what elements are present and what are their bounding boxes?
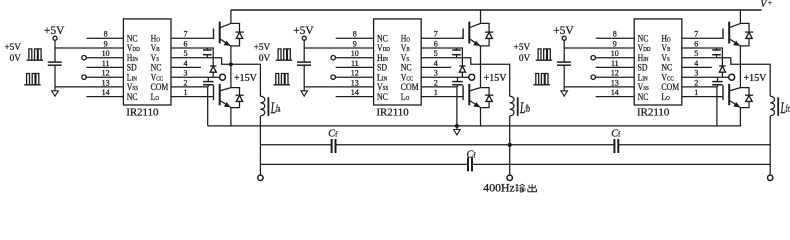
- bootstrap capacitor VB-VS (leg 2): [456, 48, 458, 50]
- svg-text:5: 5: [694, 49, 698, 58]
- capacitor Cf (A-B): [331, 139, 333, 153]
- transistor V2H collector lead to V+ rail: [469, 10, 480, 28]
- NC stub pin 14 (leg 1): [87, 96, 124, 98]
- +5V supply terminal (leg 3): [562, 36, 566, 40]
- inductor Lfa coil (leg 1): [260, 96, 264, 116]
- wire: pin 2 COM to ground bus (leg 2): [421, 87, 457, 126]
- SD stub pin 11 (leg 2): [336, 66, 374, 68]
- wire: pin 1 LO to lower gate (leg 1): [171, 96, 214, 98]
- capacitor Cf (B-C): [613, 139, 615, 153]
- transistor V3H collector lead to V+ rail: [729, 10, 740, 28]
- SD stub pin 11 (leg 1): [87, 66, 124, 68]
- svg-text:9: 9: [353, 39, 357, 48]
- NC stub pin 4 (leg 1): [171, 66, 201, 68]
- V+ positive DC rail: [231, 9, 762, 11]
- op-amp/driver IC U2 IR2110 body: [374, 19, 422, 105]
- SD stub pin 11 (leg 3): [596, 66, 635, 68]
- svg-text:7: 7: [434, 30, 438, 39]
- svg-text:0V: 0V: [10, 53, 22, 63]
- wire: pin 7 HO to upper gate (leg 1): [171, 37, 214, 39]
- svg-text:+15V: +15V: [484, 73, 508, 84]
- NC stub pin 4 (leg 3): [682, 66, 712, 68]
- svg-text:0V: 0V: [259, 53, 271, 63]
- wire: lower emitter to ground bus (leg 3): [739, 107, 741, 126]
- decoupling capacitor VCC-COM (leg 1): [207, 77, 209, 81]
- svg-text:6: 6: [434, 39, 438, 48]
- wire: inductor to output terminal (leg 2): [509, 116, 511, 175]
- LIN input terminal (leg 2): [331, 75, 335, 79]
- wire: pin 6 VB with corner down to bootstrap diode (leg 3): [682, 48, 723, 66]
- wire: pin 2 COM to ground bus (leg 3): [682, 87, 717, 126]
- wire: pin 3 VCC to +15V terminal (leg 3): [682, 76, 729, 78]
- wire: pin 7 HO to upper gate (leg 3): [682, 37, 723, 39]
- wire: +5V vertical to decoupling cap (leg 3): [563, 40, 565, 62]
- junction: phase B on Cf bus: [508, 143, 512, 147]
- bootstrap capacitor VB-VS (leg 3): [716, 48, 718, 50]
- svg-text:6: 6: [694, 39, 698, 48]
- svg-text:NC: NC: [638, 91, 649, 102]
- NC stub pin 4 (leg 2): [421, 66, 451, 68]
- wire: branch to pin 13 VSS (leg 1): [55, 86, 123, 88]
- HIN pulse waveform symbol (leg 2): [276, 49, 293, 60]
- output terminal phase 1: [258, 175, 263, 180]
- svg-text:+5V: +5V: [254, 42, 271, 52]
- transistor V2H upper IGBT gate bar (leg 2): [462, 29, 464, 40]
- LIN pulse waveform symbol (leg 3): [533, 74, 550, 85]
- svg-text:9: 9: [104, 39, 108, 48]
- svg-text:+5V: +5V: [514, 42, 531, 52]
- svg-text:IR2110: IR2110: [126, 106, 159, 118]
- wire: pin 3 VCC to +15V terminal (leg 2): [421, 76, 469, 78]
- transistor V3H emitter lead with arrow: [729, 39, 740, 46]
- ground symbol (leg 2 input): [301, 91, 308, 96]
- wire: HIN terminal to pin 10 (leg 1): [86, 57, 123, 59]
- svg-text:10: 10: [102, 49, 110, 58]
- svg-text:Lfc: Lfc: [780, 98, 790, 116]
- svg-text:5: 5: [434, 49, 438, 58]
- A-C capacitor rail: [260, 163, 468, 165]
- +5V supply terminal (leg 1): [53, 36, 57, 40]
- wire: HIN terminal to pin 10 (leg 2): [336, 57, 374, 59]
- +15V terminal (leg 3): [729, 74, 735, 80]
- svg-text:2: 2: [184, 78, 188, 87]
- HIN input terminal (leg 2): [331, 56, 335, 60]
- inductor Lfb core bar: [517, 97, 519, 116]
- svg-text:+15V: +15V: [744, 73, 768, 84]
- decoupling capacitor VCC-COM (leg 2): [457, 77, 459, 81]
- LIN input terminal (leg 3): [591, 75, 595, 79]
- svg-text:4: 4: [184, 59, 188, 68]
- svg-text:3: 3: [694, 69, 698, 78]
- decoupling capacitor VCC-COM (leg 3): [717, 77, 719, 81]
- svg-text:+5V: +5V: [4, 42, 21, 52]
- wire: phase node to filter inductor (leg 2): [481, 64, 510, 96]
- svg-text:8: 8: [104, 30, 108, 39]
- wire: pin 6 VB with corner down to bootstrap diode (leg 2): [421, 48, 462, 66]
- transistor V1L lower IGBT gate bar (leg 1): [213, 86, 215, 101]
- wire: +5V branch to pin 9 VDD (leg 3): [564, 47, 634, 49]
- freewheeling diode VD3L (leg 3): [740, 88, 749, 95]
- wire: branch to pin 13 VSS (leg 3): [564, 86, 634, 88]
- svg-text:4: 4: [694, 59, 698, 68]
- svg-text:7: 7: [694, 30, 698, 39]
- svg-text:12: 12: [102, 69, 110, 78]
- output terminal phase 2: [507, 175, 512, 180]
- svg-text:Cf: Cf: [467, 150, 477, 161]
- svg-text:12: 12: [611, 69, 619, 78]
- junction: VS / phase node (leg 1): [229, 62, 233, 66]
- wire: pin 6 VB with corner down to bootstrap diode (leg 1): [171, 48, 213, 66]
- HIN pulse waveform symbol (leg 1): [27, 49, 44, 60]
- wire: phase node to filter inductor (leg 3): [740, 64, 770, 96]
- svg-text:8: 8: [353, 30, 357, 39]
- +15V terminal (leg 1): [220, 74, 226, 80]
- svg-text:Cf: Cf: [611, 129, 621, 140]
- svg-text:1: 1: [434, 88, 438, 97]
- phase-B capacitor rail (Cf bus): [260, 144, 331, 146]
- capacitor: +5V input decoupling (leg 1): [48, 61, 62, 63]
- NC stub pin 14 (leg 2): [336, 96, 374, 98]
- transistor V1H emitter lead with arrow: [220, 39, 231, 46]
- svg-text:NC: NC: [377, 91, 388, 102]
- wire: +5V vertical to decoupling cap (leg 1): [54, 40, 56, 62]
- svg-text:14: 14: [611, 88, 619, 97]
- svg-text:IR2110: IR2110: [376, 106, 409, 118]
- svg-text:11: 11: [102, 59, 110, 68]
- wire: phase node vertical (leg 3): [739, 46, 741, 88]
- wire: +5V branch to pin 9 VDD (leg 2): [304, 47, 373, 49]
- transistor V1H collector lead to V+ rail: [220, 10, 231, 28]
- svg-text:14: 14: [102, 88, 110, 97]
- wire: LIN terminal to pin 12 (leg 2): [336, 76, 374, 78]
- transistor V1H upper IGBT body bar: [219, 22, 221, 44]
- svg-text:Lfb: Lfb: [519, 98, 530, 116]
- ground symbol (leg 3 input): [561, 91, 568, 96]
- svg-text:13: 13: [611, 78, 619, 87]
- bootstrap diode VB (leg 3): [719, 65, 725, 67]
- wire: pin 3 VCC to +15V terminal (leg 1): [171, 76, 220, 78]
- COM / power ground bus: [208, 125, 742, 127]
- NC stub pin 8 (leg 1): [87, 37, 124, 39]
- svg-text:9: 9: [613, 39, 617, 48]
- freewheeling diode VD2L (leg 2): [481, 88, 490, 95]
- wire: pin 5 VS step to phase node (leg 3): [682, 58, 741, 64]
- NC stub pin 8 (leg 3): [596, 37, 635, 39]
- wire: +5V branch to pin 9 VDD (leg 1): [55, 47, 123, 49]
- svg-text:2: 2: [694, 78, 698, 87]
- svg-text:11: 11: [611, 59, 619, 68]
- svg-text:Cf: Cf: [328, 129, 338, 140]
- ground symbol (power bus): [456, 126, 458, 130]
- capacitor: +5V input decoupling (leg 3): [557, 61, 571, 63]
- transistor V3L emitter lead with arrow: [729, 101, 740, 108]
- wire: pin 5 VS step to phase node (leg 2): [421, 58, 480, 64]
- svg-text:8: 8: [613, 30, 617, 39]
- wire: phase node to filter inductor (leg 1): [231, 64, 261, 96]
- transistor V2H emitter lead with arrow: [469, 39, 480, 46]
- transistor V2L collector lead: [470, 88, 481, 91]
- wire: phase node vertical (leg 2): [480, 46, 482, 88]
- transistor V2L lower IGBT body bar: [468, 84, 470, 105]
- wire: pin 1 LO to lower gate (leg 3): [682, 96, 723, 98]
- transistor V2H upper IGBT body bar: [468, 22, 470, 44]
- NC stub pin 14 (leg 3): [596, 96, 635, 98]
- LIN pulse waveform symbol (leg 1): [24, 74, 41, 85]
- wire: cap to ground (leg 2): [303, 66, 305, 91]
- freewheeling diode VD2H (leg 2): [481, 23, 490, 31]
- svg-text:+5V: +5V: [553, 25, 574, 37]
- NC stub pin 8 (leg 2): [336, 37, 374, 39]
- transistor V1L collector lead: [220, 88, 231, 91]
- inductor Lfc coil (leg 3): [770, 96, 774, 116]
- wire: pin 1 LO to lower gate (leg 2): [421, 96, 463, 98]
- transistor V1L emitter lead with arrow: [220, 101, 231, 108]
- wire: inductor to output terminal (leg 1): [259, 116, 261, 175]
- transistor V3L lower IGBT gate bar (leg 3): [722, 86, 724, 101]
- op-amp/driver IC U3 IR2110 body: [634, 19, 682, 105]
- wire: HIN terminal to pin 10 (leg 3): [596, 57, 635, 59]
- label glyph 输: [515, 184, 519, 192]
- junction: ground bus at leg 2 COM: [455, 124, 459, 128]
- svg-text:4: 4: [434, 59, 438, 68]
- svg-text:13: 13: [351, 78, 359, 87]
- wire: cap to ground (leg 3): [563, 66, 565, 91]
- transistor V1L lower IGBT body bar: [219, 84, 221, 105]
- svg-text:V: V: [761, 0, 768, 10]
- output terminal phase 3: [768, 175, 773, 180]
- svg-text:3: 3: [184, 69, 188, 78]
- svg-text:+5V: +5V: [293, 25, 314, 37]
- svg-text:7: 7: [184, 30, 188, 39]
- svg-text:1: 1: [184, 88, 188, 97]
- capacitor Cf (A-C): [467, 157, 469, 171]
- bootstrap diode VB (leg 1): [210, 65, 216, 67]
- svg-text:Lfa: Lfa: [270, 98, 281, 116]
- wire: cap to ground (leg 1): [54, 66, 56, 91]
- wire: LIN terminal to pin 12 (leg 1): [86, 76, 123, 78]
- LIN pulse waveform symbol (leg 2): [273, 74, 290, 85]
- capacitor: +5V input decoupling (leg 2): [297, 61, 311, 63]
- bootstrap capacitor VB-VS (leg 1): [206, 48, 208, 50]
- op-amp/driver IC U1 IR2110 body: [123, 19, 171, 105]
- transistor V1H upper IGBT gate bar (leg 1): [213, 29, 215, 40]
- svg-text:400Hz: 400Hz: [483, 181, 514, 194]
- svg-text:2: 2: [434, 78, 438, 87]
- inductor Lfc core bar: [777, 97, 779, 116]
- freewheeling diode VD3H (leg 3): [740, 23, 749, 31]
- transistor V2L lower IGBT gate bar (leg 2): [462, 86, 464, 101]
- svg-text:+15V: +15V: [234, 73, 258, 84]
- transistor V3L lower IGBT body bar: [728, 84, 730, 105]
- ground symbol (leg 1 input): [52, 91, 59, 96]
- svg-text:10: 10: [611, 49, 619, 58]
- wire: pin 7 HO to upper gate (leg 2): [421, 37, 463, 39]
- HIN input terminal (leg 3): [591, 56, 595, 60]
- HIN input terminal (leg 1): [82, 56, 86, 60]
- svg-text:1: 1: [694, 88, 698, 97]
- transistor V3L collector lead: [729, 88, 740, 91]
- freewheeling diode VD1H (leg 1): [231, 23, 240, 31]
- svg-text:6: 6: [184, 39, 188, 48]
- wire: LIN terminal to pin 12 (leg 3): [596, 76, 635, 78]
- wire: pin 2 COM to ground bus (leg 1): [171, 87, 208, 126]
- bootstrap diode VB (leg 2): [459, 65, 465, 67]
- svg-text:12: 12: [351, 69, 359, 78]
- transistor V3H upper IGBT body bar: [728, 22, 730, 44]
- LIN input terminal (leg 1): [82, 75, 86, 79]
- label glyph 出: [528, 184, 537, 192]
- svg-text:10: 10: [351, 49, 359, 58]
- svg-text:+5V: +5V: [44, 25, 65, 37]
- transistor V3H upper IGBT gate bar (leg 3): [722, 29, 724, 40]
- wire: branch to pin 13 VSS (leg 2): [304, 86, 373, 88]
- wire: phase node vertical (leg 1): [230, 46, 232, 88]
- wire: lower emitter to ground bus (leg 2): [480, 107, 482, 126]
- svg-text:IR2110: IR2110: [637, 106, 670, 118]
- inductor Lfa core bar: [267, 97, 269, 116]
- wire: inductor to output terminal (leg 3): [769, 116, 771, 175]
- HIN pulse waveform symbol (leg 3): [536, 49, 553, 60]
- svg-text:11: 11: [351, 59, 359, 68]
- svg-text:0V: 0V: [519, 53, 531, 63]
- +5V supply terminal (leg 2): [302, 36, 306, 40]
- freewheeling diode VD1L (leg 1): [231, 88, 240, 95]
- wire: lower emitter to ground bus (leg 1): [230, 107, 232, 126]
- svg-text:+: +: [768, 0, 772, 7]
- svg-text:13: 13: [102, 78, 110, 87]
- +15V terminal (leg 2): [469, 74, 475, 80]
- svg-text:14: 14: [351, 88, 359, 97]
- svg-text:NC: NC: [127, 91, 138, 102]
- wire: pin 5 VS step to phase node (leg 1): [171, 58, 231, 64]
- wire: +5V vertical to decoupling cap (leg 2): [303, 40, 305, 62]
- inductor Lfb coil (leg 2): [510, 96, 514, 116]
- transistor V2L emitter lead with arrow: [470, 101, 481, 108]
- svg-text:3: 3: [434, 69, 438, 78]
- svg-text:5: 5: [184, 49, 188, 58]
